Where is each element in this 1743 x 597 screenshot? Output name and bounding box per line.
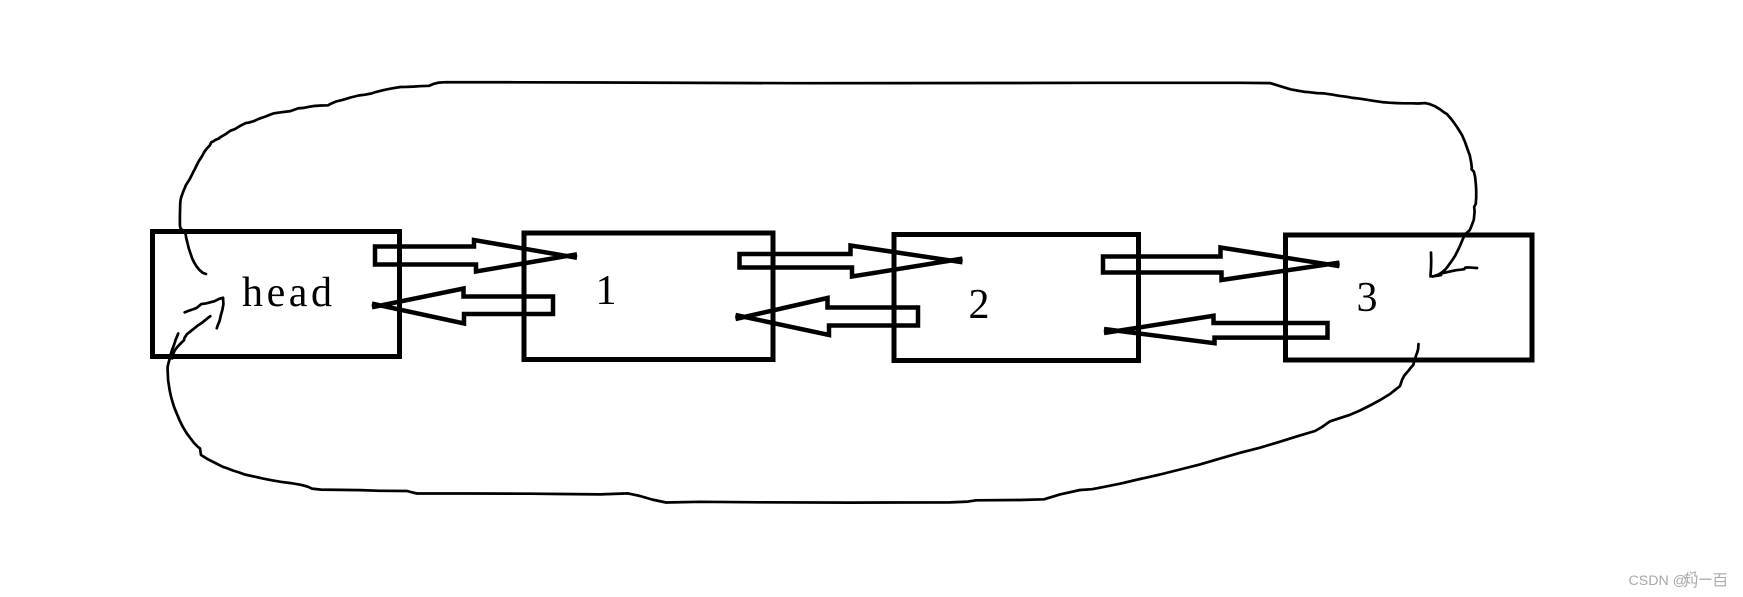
freehand bottom curve 3 to head [168, 334, 1419, 503]
node box 1 [524, 233, 773, 360]
node box 3 [1286, 235, 1533, 360]
svg-text:CSDN @: CSDN @ [1629, 573, 1688, 589]
hand arrowhead in head box (upper barb to tip) [185, 298, 223, 313]
block arrow 2 to 3 (next pointer) [1103, 248, 1340, 281]
block arrow 1 to head (prev pointer) [372, 289, 553, 324]
watermark CJK glyph yi (one) [1700, 578, 1712, 580]
hand arrowhead in box 3 (horizontal barb) [1442, 267, 1477, 273]
node box 2 [894, 235, 1139, 361]
block arrow 1 to 2 (next pointer) [740, 246, 963, 277]
svg-text:head: head [242, 270, 332, 316]
node box head [153, 232, 400, 357]
watermark CJK glyph e (goose) [1684, 572, 1697, 588]
hand arrowhead in box 3 (vertical barb) [1431, 253, 1442, 277]
watermark CJK glyph bai (hundred) [1714, 574, 1727, 586]
freehand top curve head to 3 [180, 82, 1476, 276]
svg-text:1: 1 [596, 268, 617, 314]
block arrow 2 to 1 (prev pointer) [736, 298, 919, 335]
svg-text:2: 2 [969, 282, 990, 328]
hand arrowhead in head box (tip down barb) [217, 298, 224, 328]
svg-text:3: 3 [1357, 275, 1378, 321]
block arrow 3 to 2 (prev pointer) [1104, 316, 1328, 343]
block arrow head to 1 (next pointer) [375, 240, 577, 272]
hand arrow shaft in head box [172, 316, 210, 358]
